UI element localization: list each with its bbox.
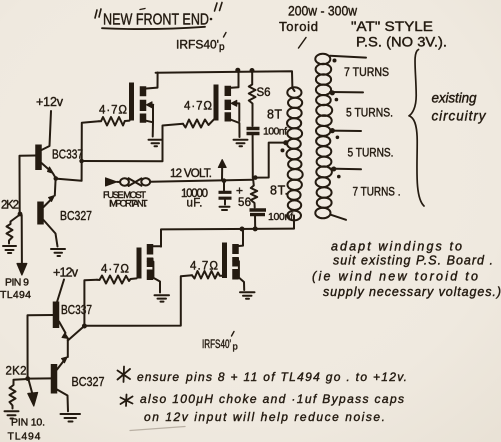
wire +12v to Q3 collector <box>57 280 64 303</box>
note adapt windings <box>312 240 501 300</box>
wire PIN10 input with arrow <box>28 380 38 407</box>
svg-text:ensure: ensure <box>137 370 179 384</box>
svg-text:56: 56 <box>238 197 251 209</box>
ground (2K2 lower) <box>5 411 19 418</box>
wire +12v to Q1 collector <box>42 111 52 150</box>
label FUSE MOST IMPORTANT <box>103 190 148 210</box>
svg-text:on 12v input will help reduce: on 12v input will help reduce noise. <box>144 410 385 424</box>
wire PIN9 input with arrow <box>17 215 27 275</box>
resistor 2K2 (lower) <box>6 366 28 409</box>
wire secondary top lead <box>330 56 366 58</box>
svg-text:p: p <box>233 342 238 353</box>
node dots tap1 <box>330 90 335 95</box>
note asterisk 1 <box>118 367 408 385</box>
node drain M4 on rail <box>240 227 245 232</box>
wire driver2 emitters to output node <box>68 326 84 340</box>
label PIN 10 TL494 <box>8 417 46 442</box>
ground (2K2 upper) <box>3 246 16 253</box>
svg-text:200w - 300w: 200w - 300w <box>288 4 357 19</box>
label PIN 9 TL494 <box>0 277 31 302</box>
node center tap on coil <box>283 140 288 145</box>
svg-text:7 TURNS: 7 TURNS <box>344 65 389 79</box>
svg-text:PIN 9: PIN 9 <box>5 277 29 289</box>
svg-text:4·7Ω: 4·7Ω <box>101 264 129 276</box>
mosfet M4 IRFS40 (lower right) <box>225 230 245 291</box>
capacitor 100nf (upper snubber) <box>247 126 288 178</box>
wire 12V marker arrow <box>218 160 226 180</box>
transistor Q3 BC337 (lower) <box>56 302 92 358</box>
ground (M1 source) <box>149 140 163 147</box>
resistor 2K2 (upper) <box>1 200 20 244</box>
svg-text:TL494: TL494 <box>0 289 31 301</box>
wire 12 volt line <box>151 180 253 182</box>
svg-text:also 100μH choke and ·1uf Bypa: also 100μH choke and ·1uf Bypass caps <box>140 392 404 406</box>
svg-text:suit existing P.S. Board .: suit existing P.S. Board . <box>333 254 493 268</box>
capacitor 10000uF <box>181 181 243 210</box>
capacitor 100nf (lower snubber) <box>250 210 294 229</box>
svg-text:Toroid: Toroid <box>279 19 318 34</box>
svg-text:TL494: TL494 <box>8 431 41 442</box>
svg-text:BC327: BC327 <box>60 209 92 223</box>
transistor Q4 BC327 (lower) <box>28 357 105 412</box>
resistor R4 4.7 ohm (gate M4) <box>190 261 222 279</box>
svg-text:100nf: 100nf <box>263 126 287 138</box>
ground (M2 source) <box>234 140 248 147</box>
node +12v (driver 2) <box>53 266 79 303</box>
svg-text:12 VOLT.: 12 VOLT. <box>170 168 212 180</box>
label IRFS40's (upper) <box>176 33 226 54</box>
label 200W-300W toroid <box>279 4 357 49</box>
svg-text:IMPORTANT.: IMPORTANT. <box>109 199 148 210</box>
svg-text:+: + <box>236 184 243 198</box>
wire primary top lead <box>292 88 294 91</box>
svg-text:+12v: +12v <box>53 266 79 280</box>
node dots tap2 <box>330 128 335 133</box>
node 12V cap junction <box>222 178 227 183</box>
wire secondary tap 3 <box>330 168 361 171</box>
ground (Q2 collector) <box>51 249 65 256</box>
node snubber on rail <box>253 226 258 231</box>
label AT STYLE P.S. <box>351 19 447 50</box>
wire secondary tap 2 <box>331 130 362 132</box>
svg-text:BC337: BC337 <box>52 148 83 162</box>
svg-text:supply necessary voltages.): supply necessary voltages.) <box>323 285 501 299</box>
wire primary bottom lead <box>293 216 295 229</box>
wire secondary tap 1 <box>330 91 363 93</box>
svg-text:p: p <box>219 42 225 53</box>
node stray dot <box>281 148 285 152</box>
resistor R1 4.7 ohm (gate M1) <box>99 105 130 126</box>
svg-text:2K2: 2K2 <box>1 200 19 212</box>
note asterisk 2 <box>121 392 405 424</box>
ground (M4 source) <box>240 292 255 299</box>
wire driver2 output to gate resistors <box>84 275 192 326</box>
transistor Q1 BC337 <box>39 145 84 179</box>
node +12v (driver 1) <box>36 95 64 150</box>
svg-text:4·7Ω: 4·7Ω <box>184 101 212 113</box>
wire secondary bottom lead <box>331 215 346 220</box>
svg-text:8T.: 8T. <box>270 184 288 198</box>
wire base rail driver2 <box>28 315 54 378</box>
transformer secondary coil (toroid) <box>315 54 332 219</box>
label existing circuitry <box>432 91 487 124</box>
wire primary center tap <box>253 143 286 178</box>
svg-text:4·7Ω: 4·7Ω <box>99 105 127 117</box>
svg-text:BC337: BC337 <box>61 303 92 317</box>
transistor Q2 BC327 <box>41 179 93 247</box>
svg-text:5 TURNS.: 5 TURNS. <box>348 146 394 160</box>
svg-text:7 TURNS .: 7 TURNS . <box>353 185 401 199</box>
svg-text:S6: S6 <box>257 87 271 99</box>
wire top rail <box>156 71 293 88</box>
node driver1 output <box>54 176 59 181</box>
wire base rail driver1 <box>20 156 36 214</box>
svg-text:existing: existing <box>432 91 477 106</box>
fuse F1 <box>106 178 151 186</box>
resistor R2 4.7 ohm (gate M2) <box>183 101 214 128</box>
node dot top winding <box>333 59 337 63</box>
resistor 56 ohm (lower snubber) <box>238 178 257 209</box>
svg-text:uF.: uF. <box>187 198 203 210</box>
svg-text:IRFS40': IRFS40' <box>176 38 219 52</box>
node driver2 output <box>82 324 87 329</box>
svg-text:+12v: +12v <box>36 95 64 109</box>
brace existing circuitry <box>409 50 424 207</box>
node snubber tap on rail <box>250 68 255 73</box>
svg-text:BC327: BC327 <box>72 375 105 389</box>
svg-text:NEW FRONT END: NEW FRONT END <box>103 12 209 29</box>
title NEW FRONT END <box>95 3 222 30</box>
resistor 56 ohm (upper snubber) <box>249 71 271 126</box>
ground (10000uF) <box>220 207 230 210</box>
svg-text:5 TURNS.: 5 TURNS. <box>346 106 393 120</box>
svg-text:8T: 8T <box>267 108 282 122</box>
svg-text:circuitry: circuitry <box>432 109 487 124</box>
transformer primary coil 8T+8T <box>287 87 303 220</box>
svg-text:2K2: 2K2 <box>6 366 27 378</box>
mosfet M1 IRFS40 (upper left) <box>132 73 158 137</box>
ground (M3 source) <box>155 295 170 301</box>
node dots tap3 <box>331 167 336 172</box>
wire bottom rail <box>161 229 294 247</box>
node base junction driver1 <box>18 212 23 217</box>
node drain M2 on rail <box>235 68 240 73</box>
mosfet M2 IRFS40 (upper right) <box>216 70 240 137</box>
node base junction driver2 <box>25 376 30 381</box>
svg-text:P.S. (NO 3V.).: P.S. (NO 3V.). <box>356 35 447 50</box>
node snubber mid junction <box>253 175 258 180</box>
svg-text:IRFS40': IRFS40' <box>202 339 231 351</box>
svg-text:"AT" STYLE: "AT" STYLE <box>351 19 433 34</box>
mosfet M3 IRFS40 (lower left) <box>139 244 161 293</box>
wire driver1 output to gates <box>56 121 99 181</box>
resistor R3 4.7 ohm (gate M3) <box>97 264 137 284</box>
svg-text:PIN 10.: PIN 10. <box>11 417 45 429</box>
pencil mark <box>130 427 185 431</box>
label IRFS40's (lower) <box>202 332 238 353</box>
ground (Q4 collector) <box>61 414 81 422</box>
